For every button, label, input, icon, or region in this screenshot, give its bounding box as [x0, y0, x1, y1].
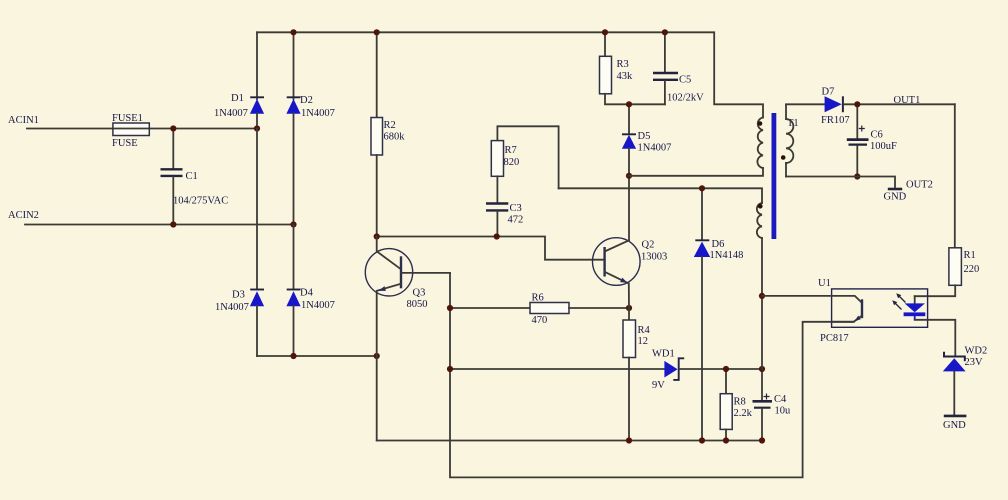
optocoupler U1 box [832, 289, 928, 327]
junction D6 top [699, 185, 705, 191]
junction rail A C4 [759, 437, 765, 443]
svg-text:1N4007: 1N4007 [301, 300, 335, 311]
svg-text:1N4007: 1N4007 [301, 108, 335, 119]
svg-text:104/275VAC: 104/275VAC [173, 196, 228, 207]
wire ACIN2 [25, 224, 294, 226]
junction D1-ACIN1 [254, 125, 260, 131]
junction C1-ACIN1 [170, 125, 176, 131]
svg-text:ACIN2: ACIN2 [8, 210, 39, 221]
junction D5 top [626, 101, 632, 107]
svg-text:C1: C1 [186, 171, 198, 182]
svg-text:OUT1: OUT1 [894, 95, 921, 106]
transformer T1 core [772, 113, 777, 239]
junction rail A R8 [723, 437, 729, 443]
capacitor C1 [161, 129, 229, 225]
svg-text:R4: R4 [638, 325, 651, 336]
wire base rail to Q2 [377, 237, 605, 260]
wire OUT2 line [786, 177, 895, 188]
svg-text:R2: R2 [384, 120, 396, 131]
transformer aux winding [757, 203, 762, 238]
wire aux winding down [761, 238, 763, 369]
svg-text:GND: GND [943, 420, 966, 431]
svg-text:1N4007: 1N4007 [215, 302, 249, 313]
svg-text:C4: C4 [774, 394, 787, 405]
svg-text:R7: R7 [505, 145, 517, 156]
ground WD2 GND [944, 415, 967, 418]
resistor R8 [720, 369, 752, 441]
junction D4 bottom [290, 353, 296, 359]
resistor R3 [600, 32, 665, 104]
svg-text:R8: R8 [734, 397, 746, 408]
resistor R1 [915, 104, 980, 296]
svg-text:9V: 9V [652, 380, 665, 391]
svg-text:PC817: PC817 [820, 333, 849, 344]
wire ACIN1 [27, 128, 257, 130]
svg-text:100uF: 100uF [870, 141, 897, 152]
svg-text:12: 12 [638, 336, 649, 347]
junction bridge to Q3 emitter [374, 353, 380, 359]
svg-text:D6: D6 [712, 239, 725, 250]
resistor R7 [491, 126, 558, 202]
svg-text:1N4007: 1N4007 [638, 143, 672, 154]
svg-text:Q2: Q2 [642, 240, 655, 251]
transistor Q3 [365, 237, 450, 441]
capacitor C6 [847, 104, 897, 176]
svg-text:FUSE1: FUSE1 [112, 113, 143, 124]
U1 LED [904, 296, 956, 355]
junction C5 top rail [662, 29, 668, 35]
transformer primary winding [757, 118, 763, 169]
capacitor C4 [753, 369, 792, 441]
junction WD1 left [447, 366, 453, 372]
svg-text:FUSE: FUSE [112, 138, 138, 149]
junction R3 top rail [602, 29, 608, 35]
diode D4 [286, 225, 334, 357]
primary polarity dot [758, 121, 763, 126]
junction C4 top [759, 366, 765, 372]
junction R2-Q3 [374, 233, 380, 239]
svg-text:220: 220 [964, 264, 980, 275]
junction C6 bottom [854, 173, 860, 179]
svg-text:D5: D5 [638, 131, 651, 142]
svg-text:R1: R1 [964, 250, 976, 261]
svg-text:ACIN1: ACIN1 [8, 115, 39, 126]
U1 phototransistor [762, 296, 862, 322]
svg-text:470: 470 [532, 315, 548, 326]
wire top rail [257, 32, 763, 117]
svg-text:Q3: Q3 [413, 288, 426, 299]
svg-text:D4: D4 [300, 288, 314, 299]
junction R6 left [447, 305, 453, 311]
resistor R2 [371, 32, 405, 236]
junction R2 top rail [374, 29, 380, 35]
junction C3 bottom [494, 233, 500, 239]
junction C6 top [854, 101, 860, 107]
svg-text:820: 820 [504, 157, 520, 168]
transistor Q2 [593, 176, 668, 308]
svg-text:R6: R6 [532, 293, 544, 304]
svg-text:D7: D7 [822, 87, 835, 98]
resistor R6 [450, 293, 629, 327]
svg-text:C6: C6 [871, 130, 883, 141]
svg-text:D1: D1 [231, 93, 244, 104]
junction D2 top rail [290, 29, 296, 35]
svg-text:WD2: WD2 [965, 346, 988, 357]
fuse FUSE1 [113, 123, 149, 136]
wire primary bottom [629, 168, 763, 176]
svg-text:D2: D2 [300, 95, 313, 106]
secondary polarity dot [781, 155, 786, 160]
svg-text:23V: 23V [965, 357, 984, 368]
svg-text:2.2k: 2.2k [734, 408, 753, 419]
svg-text:D3: D3 [232, 290, 245, 301]
junction C1-ACIN2 [170, 221, 176, 227]
svg-text:680k: 680k [384, 132, 406, 143]
aux polarity dot [758, 204, 763, 209]
svg-text:WD1: WD1 [652, 349, 675, 360]
diode D7 [786, 87, 955, 127]
svg-text:13003: 13003 [641, 252, 667, 263]
diode D3 [215, 129, 264, 357]
wire aux winding line [559, 188, 762, 203]
U1 light arrows [892, 293, 905, 309]
junction aux to U1 [759, 293, 765, 299]
junction D5 bottom [626, 173, 632, 179]
svg-text:R3: R3 [617, 59, 629, 70]
zener WD1 [450, 349, 762, 392]
svg-text:8050: 8050 [407, 299, 428, 310]
junction R6 right [626, 305, 632, 311]
svg-text:43k: 43k [617, 71, 634, 82]
wire ground rail A [377, 440, 762, 442]
svg-text:102/2kV: 102/2kV [667, 93, 704, 104]
capacitor C5 [653, 32, 704, 104]
svg-text:472: 472 [508, 215, 524, 226]
capacitor C3 [486, 203, 523, 237]
diode D1 [214, 32, 264, 128]
junction rail A R4 [626, 437, 632, 443]
wire Q3 base to feedback column [450, 273, 854, 478]
svg-text:1N4148: 1N4148 [710, 250, 744, 261]
svg-text:OUT2: OUT2 [906, 180, 933, 191]
junction D2-ACIN2 [290, 221, 296, 227]
diode D6 [694, 188, 744, 440]
transformer secondary winding [786, 105, 793, 177]
diode D5 [622, 104, 671, 176]
zener WD2 [943, 346, 987, 415]
svg-text:C3: C3 [510, 203, 522, 214]
svg-text:C5: C5 [679, 75, 691, 86]
ground OUT2 GND [888, 188, 902, 191]
wire bridge bottom [257, 355, 377, 357]
junction rail A D6 [699, 437, 705, 443]
svg-text:U1: U1 [818, 278, 831, 289]
svg-text:10u: 10u [775, 406, 792, 417]
svg-text:FR107: FR107 [821, 115, 850, 126]
svg-text:GND: GND [884, 192, 907, 203]
junction R8 top [723, 366, 729, 372]
svg-text:1N4007: 1N4007 [214, 108, 248, 119]
diode D2 [286, 32, 334, 224]
resistor R4 [623, 308, 651, 441]
